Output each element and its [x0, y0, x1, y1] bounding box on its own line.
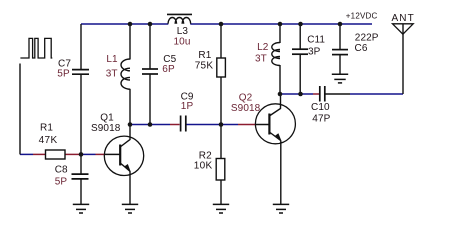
svg-text:47K: 47K: [39, 135, 58, 146]
svg-text:L1: L1: [106, 54, 118, 65]
svg-text:L3: L3: [177, 26, 189, 37]
svg-text:+12VDC: +12VDC: [346, 12, 378, 21]
svg-text:5P: 5P: [57, 69, 70, 80]
svg-text:3T: 3T: [255, 53, 267, 64]
svg-text:S9018: S9018: [91, 123, 121, 134]
svg-text:L2: L2: [257, 42, 269, 53]
svg-text:3P: 3P: [308, 46, 321, 57]
svg-text:S9018: S9018: [231, 103, 261, 114]
svg-text:47P: 47P: [312, 114, 330, 125]
svg-text:222P: 222P: [355, 33, 379, 44]
svg-text:C10: C10: [311, 102, 330, 113]
svg-text:C8: C8: [55, 165, 68, 176]
svg-text:1P: 1P: [181, 101, 194, 112]
svg-text:75K: 75K: [195, 61, 214, 72]
svg-text:C11: C11: [307, 35, 325, 46]
svg-text:6P: 6P: [162, 64, 175, 75]
svg-text:10K: 10K: [194, 160, 213, 171]
svg-text:Q2: Q2: [239, 93, 253, 104]
svg-text:Q1: Q1: [100, 112, 114, 123]
svg-text:C6: C6: [355, 43, 368, 54]
svg-text:R1: R1: [40, 122, 53, 133]
svg-text:3T: 3T: [106, 68, 118, 79]
svg-text:R1: R1: [198, 50, 211, 61]
svg-text:ANT: ANT: [392, 13, 415, 24]
svg-text:5P: 5P: [55, 176, 68, 187]
svg-text:10u: 10u: [174, 36, 191, 47]
